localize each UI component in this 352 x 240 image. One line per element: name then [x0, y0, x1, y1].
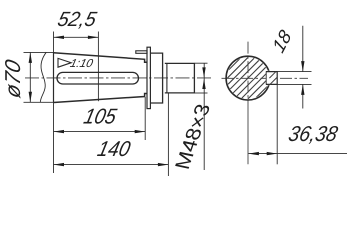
svg-text:36,38: 36,38	[286, 122, 340, 146]
svg-text:140: 140	[95, 137, 133, 161]
svg-text:18: 18	[268, 25, 295, 56]
svg-text:105: 105	[81, 105, 119, 129]
svg-text:1:10: 1:10	[69, 57, 95, 70]
svg-text:52,5: 52,5	[55, 9, 99, 31]
svg-text:ø70: ø70	[0, 57, 25, 100]
svg-text:M48×3: M48×3	[169, 105, 216, 170]
